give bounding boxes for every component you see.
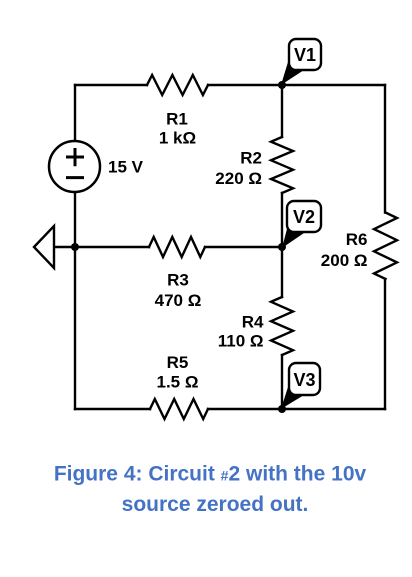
svg-text:R4: R4 — [242, 312, 264, 331]
wire bottom-left horizontal (bottom corner to R5) — [75, 408, 150, 410]
resistor R6 — [374, 213, 397, 280]
wire middle vertical upper (node V1 to R2) — [281, 85, 283, 137]
resistor R4 — [271, 297, 293, 355]
svg-text:R6: R6 — [346, 230, 368, 249]
resistor R2 — [271, 137, 293, 193]
svg-text:15 V: 15 V — [108, 158, 144, 177]
svg-text:1.5 Ω: 1.5 Ω — [157, 372, 199, 391]
wire middle vertical lower (R4 to node V3) — [281, 355, 283, 409]
wire middle horizontal right (R3 to node V2) — [205, 246, 282, 248]
node V2 — [278, 201, 321, 251]
svg-text:1 kΩ: 1 kΩ — [159, 129, 196, 148]
node V1 — [278, 39, 321, 89]
svg-text:R3: R3 — [167, 270, 189, 289]
svg-text:Figure 4: Circuit #2 with the: Figure 4: Circuit #2 with the 10v — [54, 463, 367, 486]
svg-text:source zeroed out.: source zeroed out. — [122, 493, 309, 516]
svg-text:R2: R2 — [240, 149, 262, 168]
resistor R3 — [149, 237, 205, 257]
resistor R1 — [147, 75, 208, 95]
svg-text:200 Ω: 200 Ω — [321, 251, 368, 270]
node V3 — [278, 363, 320, 413]
svg-text:110 Ω: 110 Ω — [218, 332, 264, 351]
wire left rail upper (top corner to source top) — [74, 85, 76, 141]
junction dot at ground node — [71, 243, 79, 251]
resistor R5 — [150, 399, 208, 419]
wire middle horizontal left (ground to R3) — [54, 246, 149, 248]
caption: Figure 4: Circuit #2 with the 10v source zeroed out. — [54, 463, 367, 517]
wire right rail lower (R6 to bottom corner) — [384, 279, 386, 409]
wire left rail lower (source bottom to bottom corner) — [74, 193, 76, 409]
svg-text:V1: V1 — [294, 45, 316, 65]
wire bottom-right horizontal (R5 to right rail through node V3) — [208, 408, 385, 410]
svg-text:R1: R1 — [166, 109, 188, 128]
svg-text:V2: V2 — [293, 207, 315, 227]
wire top-right horizontal (R1 to right rail through node V1) — [208, 84, 385, 86]
ground — [34, 226, 54, 268]
wire right rail upper (top corner to R6) — [384, 85, 386, 213]
svg-text:470 Ω: 470 Ω — [155, 291, 202, 310]
svg-text:220 Ω: 220 Ω — [215, 169, 262, 188]
svg-text:V3: V3 — [293, 370, 315, 390]
svg-text:R5: R5 — [167, 353, 189, 372]
wire top-left horizontal (source to R1) — [75, 84, 147, 86]
voltage source VS (15 V) — [49, 141, 100, 192]
wire middle vertical (R2 to node V2 to R4) — [281, 193, 283, 297]
